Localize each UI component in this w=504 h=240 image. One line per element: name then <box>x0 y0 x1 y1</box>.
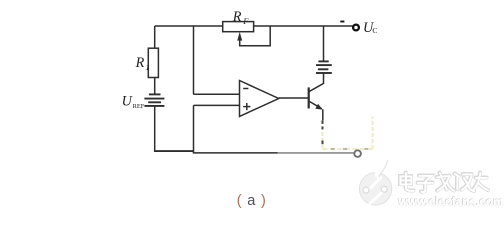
svg-text:1: 1 <box>145 62 149 72</box>
svg-text:( a ): ( a ) <box>237 193 267 209</box>
svg-text:R: R <box>232 9 242 25</box>
svg-text:REF: REF <box>133 103 145 110</box>
svg-text:C: C <box>372 26 377 35</box>
svg-text:F: F <box>242 16 249 26</box>
svg-text:www.elecfans.com: www.elecfans.com <box>397 195 503 209</box>
svg-text:R: R <box>135 55 145 71</box>
